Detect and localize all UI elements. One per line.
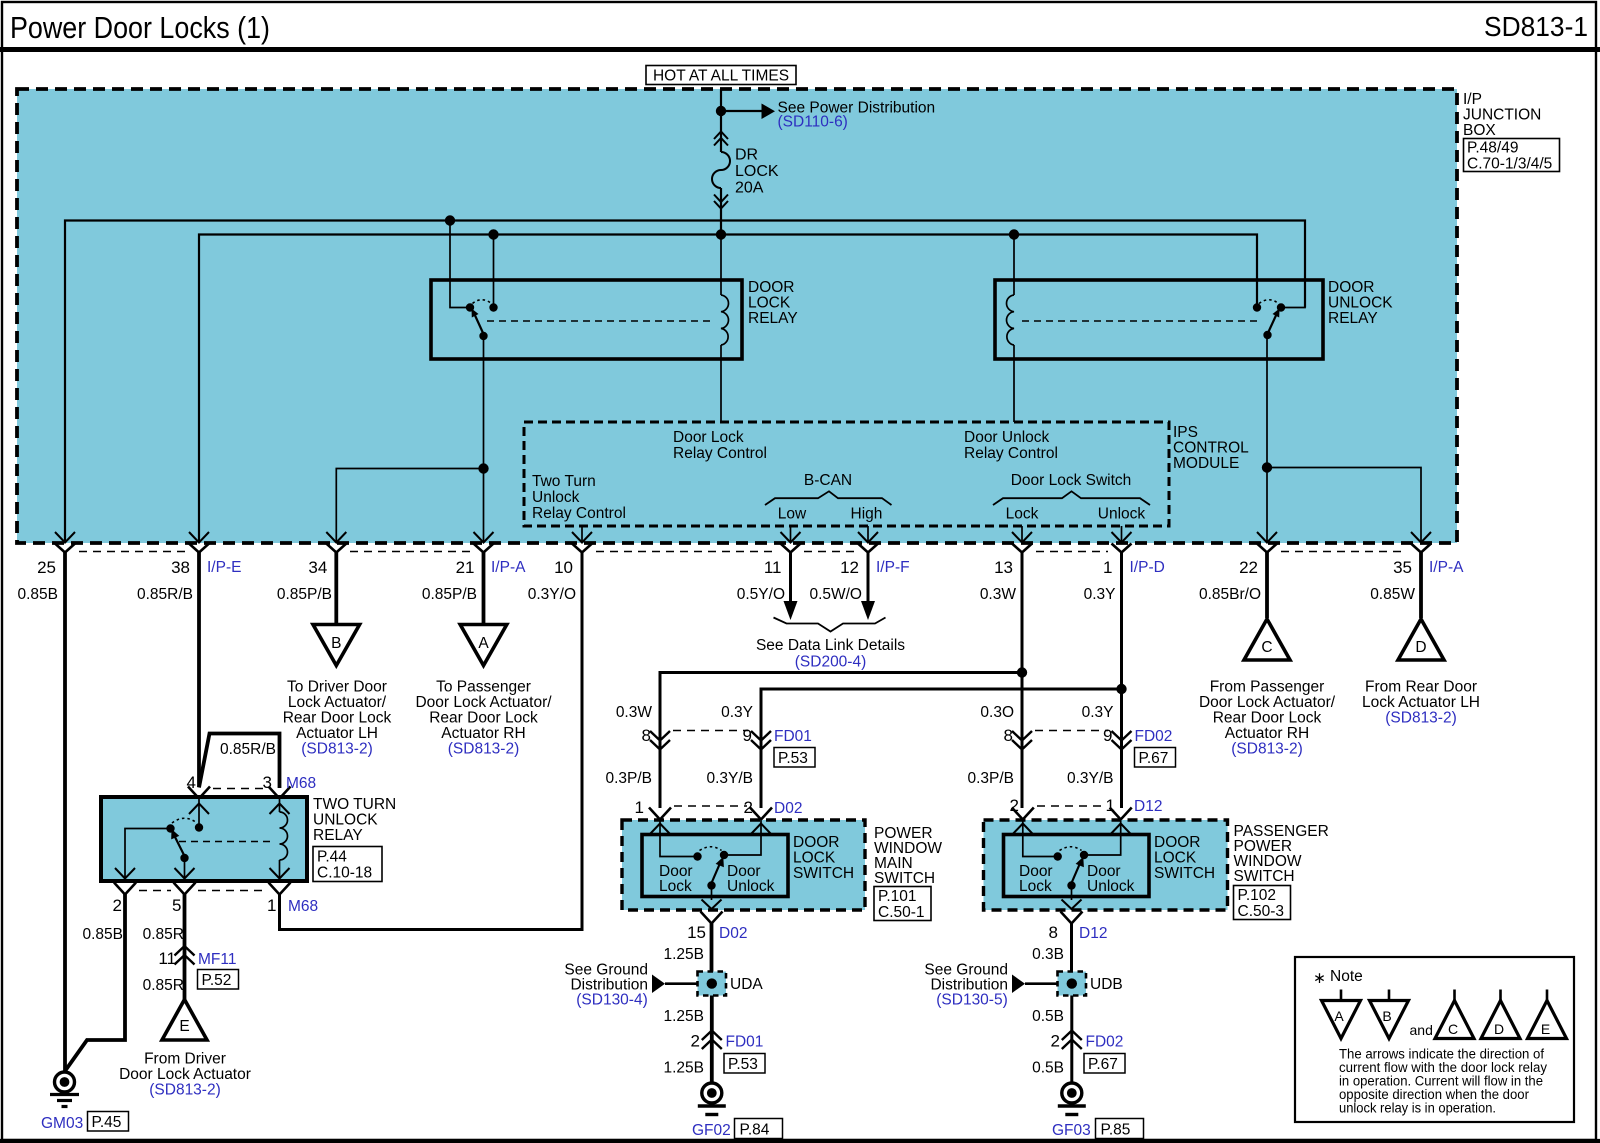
svg-text:Actuator RH: Actuator RH: [441, 725, 525, 742]
svg-text:C.50-3: C.50-3: [1238, 903, 1285, 920]
lock contact: [693, 852, 701, 860]
svg-text:0.85W: 0.85W: [1370, 586, 1415, 603]
svg-text:(SD813-2): (SD813-2): [1231, 741, 1303, 758]
pivot: [180, 854, 188, 862]
relay: DOOR UNLOCK RELAY box: [995, 280, 1323, 359]
svg-text:P.101: P.101: [878, 888, 917, 905]
svg-text:SWITCH: SWITCH: [1154, 865, 1215, 882]
wire pin 2 to unlock contact: [728, 820, 762, 855]
svg-text:0.3Y: 0.3Y: [1084, 586, 1116, 603]
svg-text:RELAY: RELAY: [313, 827, 363, 844]
svg-text:P.53: P.53: [778, 750, 808, 767]
svg-text:Unlock: Unlock: [1098, 506, 1146, 523]
label box P.67 (lower): [1084, 1054, 1125, 1074]
arrow down pin 12: [861, 601, 875, 620]
wires FD01 to D02: [659, 731, 662, 808]
svg-text:DOOR: DOOR: [793, 834, 840, 851]
svg-text:0.85R: 0.85R: [143, 926, 184, 943]
svg-text:11: 11: [158, 949, 176, 968]
svg-text:0.85Br/O: 0.85Br/O: [1199, 586, 1261, 603]
direction arrows into relay top: [189, 804, 290, 815]
relay: TWO TURN UNLOCK RELAY box: [101, 797, 307, 881]
POWER WINDOW MAIN SWITCH dashed box: [622, 820, 865, 910]
svg-text:(SD200-4): (SD200-4): [795, 654, 867, 671]
svg-text:FD02: FD02: [1086, 1034, 1124, 1051]
svg-text:P.67: P.67: [1088, 1056, 1118, 1073]
node on line 2 right: [1009, 229, 1019, 239]
svg-text:2: 2: [691, 1032, 700, 1051]
svg-text:0.5B: 0.5B: [1032, 1060, 1064, 1077]
svg-text:Lock Actuator/: Lock Actuator/: [288, 694, 387, 711]
svg-text:0.3B: 0.3B: [1032, 946, 1064, 963]
svg-text:UNLOCK: UNLOCK: [1328, 295, 1393, 312]
connector D02: pin 1: [649, 808, 671, 820]
svg-text:MODULE: MODULE: [1173, 455, 1239, 472]
arrow: see power distribution: [762, 104, 776, 120]
svg-text:FD01: FD01: [726, 1034, 764, 1051]
svg-text:9: 9: [743, 726, 752, 745]
svg-text:0.3W: 0.3W: [616, 704, 653, 721]
svg-text:(SD130-4): (SD130-4): [576, 992, 648, 1009]
switch arm: [1072, 861, 1082, 883]
label box P.52: [198, 970, 239, 990]
svg-text:10: 10: [554, 558, 573, 577]
wire pin 4 to contact: [198, 797, 200, 824]
wire pivot to pin 8: [1071, 886, 1073, 901]
svg-text:Low: Low: [778, 506, 807, 523]
dotted throw arc: [700, 847, 722, 851]
svg-text:2: 2: [744, 798, 753, 817]
svg-text:P.53: P.53: [728, 1056, 758, 1073]
dashed connector line FD02: [1035, 730, 1108, 732]
svg-text:LOCK: LOCK: [748, 295, 791, 312]
wire pin 2 to left contact: [125, 829, 171, 882]
in-line connector FD02 pin 9: [1112, 731, 1132, 750]
svg-text:I/P-F: I/P-F: [876, 559, 910, 576]
label box P.53 (lower): [724, 1054, 765, 1074]
wire 0.3O down to passenger switch pin 8: [1021, 673, 1024, 732]
svg-text:GF03: GF03: [1052, 1122, 1091, 1139]
svg-text:RELAY: RELAY: [748, 310, 798, 327]
svg-text:Lock: Lock: [1019, 878, 1052, 895]
connector D02 pin 15: [701, 912, 723, 924]
svg-text:I/P-A: I/P-A: [1429, 559, 1464, 576]
wire: battery feed from top: [720, 90, 722, 114]
brace under B-CAN wires: [774, 618, 886, 632]
svg-text:unlock relay is in operation.: unlock relay is in operation.: [1339, 1101, 1496, 1116]
svg-text:UNLOCK: UNLOCK: [313, 812, 378, 829]
connector D12: pin 1: [1110, 808, 1132, 820]
svg-text:35: 35: [1393, 558, 1412, 577]
svg-text:15: 15: [687, 923, 706, 942]
svg-text:I/P: I/P: [1463, 91, 1482, 108]
svg-text:Unlock: Unlock: [727, 878, 775, 895]
label box P.101 C.50-1: [874, 887, 931, 922]
label Door Lock Switch with brace: [993, 472, 1150, 523]
svg-text:0.3Y/B: 0.3Y/B: [1067, 770, 1114, 787]
svg-text:IPS: IPS: [1173, 424, 1198, 441]
svg-text:LOCK: LOCK: [1154, 850, 1197, 867]
ground GF02: [698, 1083, 726, 1115]
in-line connector FD01 pin 9: [751, 731, 771, 750]
svg-text:D12: D12: [1079, 925, 1107, 942]
svg-text:B: B: [1382, 1008, 1391, 1024]
connector M68 top: pin 3: [269, 787, 291, 799]
svg-text:DOOR: DOOR: [1154, 834, 1201, 851]
see ground distribution (right): [924, 962, 1057, 1009]
svg-text:TWO TURN: TWO TURN: [313, 796, 396, 813]
wires FD02 to D12: [1021, 731, 1024, 808]
wire gauge labels: [17, 586, 1415, 603]
svg-text:Door Lock Switch: Door Lock Switch: [1011, 472, 1132, 489]
svg-text:0.85R/B: 0.85R/B: [220, 741, 276, 758]
pivot: [1067, 881, 1075, 889]
wire 0.5B UDB to FD02: [1070, 996, 1073, 1084]
svg-text:0.3Y: 0.3Y: [721, 704, 753, 721]
svg-text:P.48/49: P.48/49: [1467, 140, 1518, 157]
svg-text:Door Unlock: Door Unlock: [964, 429, 1050, 446]
svg-text:0.3Y: 0.3Y: [1082, 704, 1114, 721]
pin label: Two Turn Unlock Relay Control: [532, 473, 626, 522]
PASSENGER POWER WINDOW SWITCH dashed box: [984, 820, 1228, 910]
wire: branch to relay pin 3: [199, 734, 280, 789]
dashed relay link: [1022, 320, 1261, 322]
triangle B: [313, 625, 360, 666]
svg-text:SWITCH: SWITCH: [1234, 868, 1295, 885]
svg-text:B-CAN: B-CAN: [804, 472, 852, 489]
svg-text:21: 21: [456, 558, 475, 577]
coil of two-turn relay: [280, 797, 288, 881]
connector D02: pin 2: [750, 808, 772, 820]
node: branch to pin 34: [478, 463, 488, 473]
wire: branch to pin 35: [1267, 468, 1421, 544]
label I/P JUNCTION BOX: [1463, 91, 1541, 139]
svg-text:UDA: UDA: [730, 976, 763, 993]
direction arrows at I/P box bottom: [55, 532, 1431, 543]
label box P.102 C.50-3: [1234, 886, 1291, 921]
node on line 2 left: [488, 229, 498, 239]
svg-text:C: C: [1448, 1021, 1458, 1037]
connector M68 top: pin 4: [188, 787, 210, 799]
svg-text:13: 13: [994, 558, 1013, 577]
svg-text:(SD813-2): (SD813-2): [1385, 710, 1457, 727]
svg-text:3: 3: [263, 773, 272, 792]
pivot: [1263, 331, 1271, 339]
svg-text:P.85: P.85: [1101, 1122, 1131, 1139]
in-line connector FD02 pin 2: [1062, 1031, 1082, 1050]
note box: [1295, 957, 1574, 1122]
connector chevrons at I/P box bottom: [55, 544, 1431, 553]
svg-text:E: E: [179, 1018, 189, 1035]
pivot: [707, 881, 715, 889]
DOOR LOCK SWITCH box (main): [642, 835, 788, 897]
svg-text:C.50-1: C.50-1: [878, 904, 925, 921]
svg-text:Relay Control: Relay Control: [673, 445, 767, 462]
svg-text:D02: D02: [719, 925, 747, 942]
unlock contact: [720, 851, 728, 859]
arrow down pin 11: [784, 601, 798, 620]
wire pin 1 to unlock contact: [1088, 820, 1121, 855]
ground GM03: [50, 1072, 79, 1107]
dotted throw arc: [1259, 300, 1279, 304]
title separator line: [0, 47, 1600, 52]
svg-text:8: 8: [1049, 923, 1058, 942]
label box P.67: [1135, 748, 1176, 768]
wire: branch left to main switch pin 8: [660, 673, 1022, 732]
svg-text:P.102: P.102: [1238, 887, 1277, 904]
svg-text:20A: 20A: [735, 180, 764, 197]
svg-text:0.3W: 0.3W: [980, 586, 1017, 603]
node on line 1: [445, 215, 455, 225]
svg-text:Unlock: Unlock: [532, 489, 580, 506]
svg-text:38: 38: [171, 558, 190, 577]
wire: branch left to main switch pin 9: [761, 689, 1122, 731]
contact right: [195, 823, 203, 831]
svg-text:0.85R/B: 0.85R/B: [137, 586, 193, 603]
svg-text:M68: M68: [288, 898, 318, 915]
joint UDA: [698, 972, 764, 996]
svg-text:25: 25: [37, 558, 56, 577]
svg-text:1: 1: [635, 798, 644, 817]
node: power junction: [716, 106, 726, 116]
switch arm: [173, 833, 185, 856]
svg-text:9: 9: [1103, 726, 1112, 745]
note triangle A: [1322, 990, 1361, 1039]
svg-text:FD02: FD02: [1135, 728, 1173, 745]
label box P.53: [774, 748, 815, 768]
svg-text:Door Lock: Door Lock: [673, 429, 744, 446]
fuse DR LOCK 20A: [712, 111, 779, 235]
svg-text:P.44: P.44: [317, 849, 347, 866]
svg-text:∗: ∗: [1313, 970, 1326, 987]
switch arm: [712, 861, 722, 883]
wire: branch to pin 34: [336, 469, 483, 544]
svg-text:0.85B: 0.85B: [17, 586, 58, 603]
contact left: [466, 303, 474, 311]
pin label: Door Unlock Relay Control: [964, 429, 1058, 462]
wire 0.85W pin 35 to triangle D: [1419, 552, 1423, 618]
svg-text:E: E: [1541, 1021, 1550, 1037]
svg-text:High: High: [851, 506, 883, 523]
svg-text:0.5Y/O: 0.5Y/O: [737, 586, 785, 603]
wire 0.3B to UDB: [1070, 923, 1073, 972]
label box P.48/49 C.70-1/3/4/5: [1464, 139, 1560, 173]
dashed connector line M68 top: [213, 788, 266, 790]
svg-text:P.45: P.45: [92, 1114, 122, 1131]
direction arrows into switch: [650, 824, 771, 835]
svg-text:0.5B: 0.5B: [1032, 1008, 1064, 1025]
note paragraph: [1339, 1047, 1547, 1116]
svg-text:A: A: [1334, 1008, 1344, 1024]
label B-CAN with brace: [765, 472, 892, 523]
svg-text:SWITCH: SWITCH: [874, 870, 935, 887]
svg-text:D02: D02: [774, 800, 802, 817]
switch arm: [473, 311, 484, 334]
IPS control module dashed box: [524, 422, 1169, 526]
svg-text:0.85R: 0.85R: [143, 977, 184, 994]
label IPS CONTROL MODULE: [1173, 424, 1249, 472]
I/P junction box (blue dashed): [17, 89, 1457, 543]
wire: line1 to relay contact: [450, 221, 466, 308]
wire 0.85P/B pin 21 to triangle A: [482, 552, 486, 624]
connector D12: pin 2: [1012, 808, 1034, 820]
DOOR LOCK SWITCH box (passenger): [1004, 835, 1150, 897]
wire 0.85R/B pin 38 down: [197, 552, 201, 787]
svg-text:Door Lock Actuator/: Door Lock Actuator/: [415, 694, 552, 711]
svg-text:Door Lock Actuator: Door Lock Actuator: [119, 1066, 251, 1083]
wire: right contact up to line 1: [1281, 221, 1305, 308]
svg-text:12: 12: [840, 558, 859, 577]
switch arm: [1268, 311, 1279, 334]
wire 0.3Y down to passenger switch pin 9: [1120, 689, 1123, 731]
svg-text:DOOR: DOOR: [748, 279, 795, 296]
triangle E: [162, 1000, 207, 1041]
label POWER WINDOW MAIN SWITCH: [874, 825, 942, 887]
wire 0.85R pin 5 down: [183, 894, 187, 999]
connector grouping dashed lines: [79, 551, 1407, 553]
dashed connector line M68 bottom: [139, 890, 171, 892]
dashed connector line FD01: [673, 730, 748, 732]
joint UDB: [1058, 972, 1123, 996]
svg-text:(SD130-5): (SD130-5): [936, 992, 1008, 1009]
wire 0.3Y pin 1 down: [1120, 552, 1123, 689]
svg-text:1: 1: [1103, 558, 1112, 577]
svg-text:(SD813-2): (SD813-2): [301, 741, 373, 758]
label box P.84: [735, 1119, 783, 1139]
svg-text:Actuator RH: Actuator RH: [1225, 725, 1309, 742]
label HOT AT ALL TIMES: [646, 66, 796, 85]
svg-text:8: 8: [642, 726, 651, 745]
dotted throw arc: [1060, 847, 1082, 851]
lock contact: [1054, 852, 1062, 860]
wire: branch to power distribution: [721, 110, 762, 112]
svg-text:To Driver Door: To Driver Door: [287, 679, 387, 696]
node: branch to pin 35: [1262, 462, 1272, 472]
svg-text:C.70-1/3/4/5: C.70-1/3/4/5: [1467, 156, 1552, 173]
svg-text:SWITCH: SWITCH: [793, 865, 854, 882]
IPS pin stubs: [582, 526, 1122, 543]
in-line connector FD01 pin 8: [650, 731, 670, 750]
svg-text:UDB: UDB: [1090, 976, 1123, 993]
svg-text:To Passenger: To Passenger: [436, 679, 531, 696]
svg-text:1.25B: 1.25B: [663, 1060, 704, 1077]
svg-text:A: A: [478, 635, 489, 652]
svg-text:1: 1: [267, 896, 276, 915]
svg-text:0.85P/B: 0.85P/B: [277, 586, 332, 603]
svg-text:CONTROL: CONTROL: [1173, 440, 1249, 457]
note triangle B: [1370, 990, 1409, 1039]
svg-text:LOCK: LOCK: [793, 850, 836, 867]
dashed relay link (two-turn): [179, 841, 272, 843]
wire: line2 to relay contact 2: [493, 235, 495, 304]
svg-text:D12: D12: [1134, 798, 1162, 815]
svg-text:D: D: [1494, 1021, 1504, 1037]
dotted throw arc: [172, 818, 197, 823]
svg-text:22: 22: [1239, 558, 1258, 577]
svg-text:P.52: P.52: [202, 972, 232, 989]
svg-text:Lock: Lock: [659, 878, 692, 895]
wire: relay switch output down: [483, 336, 485, 543]
svg-text:Lock: Lock: [1006, 506, 1039, 523]
note triangle D: [1481, 990, 1520, 1039]
svg-text:Power Door Locks (1): Power Door Locks (1): [10, 10, 270, 45]
wire 0.85Br/O pin 22 to triangle C: [1265, 552, 1269, 618]
coil of door lock relay: [721, 235, 728, 423]
svg-text:0.3Y/O: 0.3Y/O: [528, 586, 576, 603]
wire: bus line 1: [65, 221, 1305, 544]
svg-text:0.3O: 0.3O: [980, 704, 1014, 721]
svg-text:Relay Control: Relay Control: [964, 445, 1058, 462]
svg-text:Two Turn: Two Turn: [532, 473, 596, 490]
svg-text:P.67: P.67: [1139, 750, 1169, 767]
note triangle E: [1528, 990, 1567, 1039]
svg-text:FD01: FD01: [774, 728, 812, 745]
svg-text:2: 2: [1051, 1032, 1060, 1051]
wire 0.85P/B pin 34 to triangle B: [334, 552, 338, 624]
triangle A: [460, 625, 507, 666]
svg-text:0.5W/O: 0.5W/O: [809, 586, 862, 603]
node: lock wire branch: [1017, 667, 1027, 677]
svg-text:Note: Note: [1330, 968, 1363, 985]
svg-text:Lock Actuator LH: Lock Actuator LH: [1362, 694, 1480, 711]
dashed relay link: [487, 320, 712, 322]
svg-text:SD813-1: SD813-1: [1484, 11, 1588, 42]
wire: bus line 2: [199, 235, 1257, 544]
see ground distribution (left): [564, 962, 697, 1009]
svg-text:From Driver: From Driver: [144, 1051, 226, 1068]
svg-text:1.25B: 1.25B: [663, 946, 704, 963]
connector M68 bottom: pin 2: [114, 883, 136, 895]
svg-text:1.25B: 1.25B: [663, 1008, 704, 1025]
triangle C: [1244, 619, 1290, 660]
svg-text:and: and: [1410, 1022, 1433, 1038]
svg-text:(SD110-6): (SD110-6): [778, 114, 848, 131]
svg-text:Rear Door Lock: Rear Door Lock: [1213, 710, 1322, 727]
svg-text:I/P-D: I/P-D: [1130, 559, 1165, 576]
label box P.44 C.10-18: [313, 847, 382, 882]
wire 0.85B pin 2 down: [65, 894, 125, 1071]
svg-text:LOCK: LOCK: [735, 163, 779, 180]
direction arrows into switch: [1013, 824, 1131, 835]
label PASSENGER POWER WINDOW SWITCH: [1234, 823, 1329, 885]
svg-text:BOX: BOX: [1463, 122, 1496, 139]
connector D12 pin 8: [1061, 912, 1083, 924]
svg-text:C.10-18: C.10-18: [317, 865, 372, 882]
wire 1.25B to UDA: [710, 923, 714, 972]
svg-text:HOT AT ALL TIMES: HOT AT ALL TIMES: [653, 68, 789, 85]
svg-text:C: C: [1261, 639, 1272, 656]
svg-text:Rear Door Lock: Rear Door Lock: [283, 710, 392, 727]
dotted throw arc: [473, 300, 492, 304]
svg-text:M68: M68: [286, 775, 316, 792]
svg-text:P.84: P.84: [740, 1122, 770, 1139]
svg-text:JUNCTION: JUNCTION: [1463, 107, 1541, 124]
svg-text:GF02: GF02: [692, 1122, 731, 1139]
contact right (unlock relay): [1277, 303, 1285, 311]
svg-text:Relay Control: Relay Control: [532, 505, 626, 522]
svg-text:34: 34: [308, 558, 327, 577]
svg-text:RELAY: RELAY: [1328, 310, 1378, 327]
svg-text:0.3P/B: 0.3P/B: [605, 770, 652, 787]
svg-text:4: 4: [187, 773, 196, 792]
wire pin 2 to lock contact: [1023, 820, 1054, 857]
wire 0.5W/O pin 12: [867, 552, 870, 601]
triangle D: [1398, 619, 1444, 660]
svg-text:MF11: MF11: [198, 951, 236, 968]
unlock contact: [1080, 851, 1088, 859]
label box P.45: [88, 1112, 129, 1132]
svg-text:DOOR: DOOR: [1328, 279, 1375, 296]
